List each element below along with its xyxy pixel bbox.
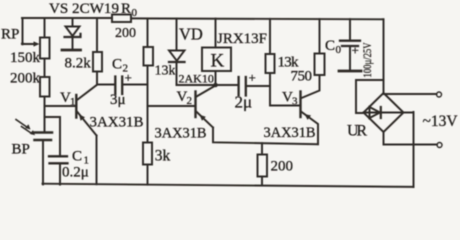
wire branch to bridge left corner bbox=[356, 80, 384, 113]
label 0.2u bbox=[62, 165, 89, 181]
svg-text:150k: 150k bbox=[10, 50, 41, 66]
transistor V2 collector bbox=[197, 86, 216, 97]
label VD bbox=[179, 25, 203, 44]
svg-text:3k: 3k bbox=[155, 148, 171, 165]
label plus C2 bbox=[125, 70, 132, 85]
svg-text:C: C bbox=[112, 57, 122, 73]
svg-text:RP: RP bbox=[1, 27, 19, 43]
label 3AX31B first bbox=[90, 115, 144, 131]
svg-text:200: 200 bbox=[271, 159, 294, 175]
label 2u bbox=[235, 93, 253, 112]
potentiometer RP body bbox=[40, 18, 50, 58]
svg-text:0.2μ: 0.2μ bbox=[62, 165, 89, 181]
label 13k right bbox=[278, 55, 300, 71]
label 3AX31B second bbox=[155, 126, 207, 142]
ground bar of zener branch bbox=[62, 49, 81, 52]
resistor R0 bbox=[112, 15, 131, 23]
wire top rail left segment bbox=[22, 17, 112, 19]
label V3 bbox=[282, 90, 298, 108]
wire bridge right corner to bottom rail bbox=[404, 112, 414, 187]
label JRX13F bbox=[217, 31, 267, 47]
label plus C0 bbox=[352, 43, 359, 58]
node junction dot bbox=[213, 83, 218, 88]
wire VD node to capacitor 2u bbox=[177, 84, 238, 86]
svg-text:3: 3 bbox=[292, 96, 298, 108]
svg-text:3AX31B: 3AX31B bbox=[264, 125, 316, 141]
transistor V3 emitter with arrow bbox=[302, 112, 318, 144]
svg-text:100μ/25V: 100μ/25V bbox=[360, 42, 374, 77]
svg-text:2: 2 bbox=[187, 95, 193, 107]
photocell BP arrows bbox=[16, 120, 35, 136]
bridge rectifier UR diamond bbox=[364, 93, 404, 132]
label K bbox=[211, 51, 225, 72]
label BP bbox=[12, 142, 30, 158]
label 2AK10 bbox=[179, 72, 214, 86]
svg-text:K: K bbox=[211, 51, 225, 72]
label C0 bbox=[325, 38, 342, 56]
svg-text:1: 1 bbox=[70, 96, 76, 108]
svg-text:UR: UR bbox=[347, 123, 367, 140]
resistor 200 bbox=[258, 143, 268, 185]
terminal circle bottom bbox=[437, 143, 442, 148]
transistor V1 collector bbox=[77, 85, 97, 100]
label 100u 25V rotated bbox=[360, 42, 374, 77]
transistor V1 emitter with arrow bbox=[77, 112, 97, 136]
capacitor C0 electrolytic bbox=[340, 19, 360, 69]
label 3k bbox=[155, 148, 171, 165]
svg-text:+: + bbox=[249, 70, 256, 85]
svg-text:3AX31B: 3AX31B bbox=[155, 126, 207, 142]
svg-text:3AX31B: 3AX31B bbox=[90, 115, 144, 131]
label plus 2u bbox=[249, 70, 256, 85]
bridge inner diode bbox=[364, 107, 404, 118]
wire V2 emitter down and right to V3 emitter bbox=[213, 128, 318, 145]
wire 2u to 13k right column bbox=[247, 85, 270, 87]
transistor V3 collector bbox=[302, 75, 320, 98]
label 200k bbox=[10, 71, 41, 87]
label ~13V bbox=[423, 113, 458, 130]
label 200 mid bbox=[271, 159, 294, 175]
capacitor 2u plates bbox=[239, 77, 246, 96]
svg-text:JRX13F: JRX13F bbox=[217, 31, 267, 47]
capacitor C1 plates bbox=[49, 156, 68, 163]
capacitor C2 plates bbox=[115, 77, 122, 95]
transistor V2 emitter with arrow bbox=[197, 112, 213, 128]
svg-text:0: 0 bbox=[132, 7, 138, 19]
wire 200k down to BP bbox=[44, 97, 46, 132]
terminal circle top bbox=[437, 92, 442, 97]
label UR bbox=[347, 123, 367, 140]
label C1 bbox=[72, 149, 89, 167]
label R0 bbox=[121, 1, 138, 19]
label 3u bbox=[110, 92, 126, 108]
wire 13k right to V3 base bbox=[270, 73, 300, 106]
label 3AX31B third bbox=[264, 125, 316, 141]
potentiometer RP wiper arrow bbox=[21, 41, 40, 46]
svg-text:2μ: 2μ bbox=[235, 93, 253, 112]
svg-text:VD: VD bbox=[179, 25, 203, 44]
wire V2 base lead bbox=[148, 105, 195, 107]
wire BP to bottom rail bbox=[42, 141, 44, 185]
label VS 2CW19 bbox=[49, 1, 119, 17]
transistor V1 base bar bbox=[75, 95, 77, 118]
svg-text:0: 0 bbox=[336, 44, 342, 56]
svg-text:+: + bbox=[125, 70, 132, 85]
wire to AC terminal top bbox=[384, 93, 437, 95]
resistor 200k bbox=[40, 77, 50, 97]
wire bottom rail bbox=[43, 184, 414, 187]
svg-text:+: + bbox=[352, 43, 359, 58]
diode VD 2AK10 bbox=[169, 19, 185, 85]
label C2 bbox=[112, 57, 128, 75]
svg-text:BP: BP bbox=[12, 142, 30, 158]
wire V1 base lead bbox=[45, 105, 76, 107]
wire 13k node down through base tee to 3k bbox=[147, 66, 149, 143]
label V2 bbox=[177, 89, 193, 107]
resistor 13k right bbox=[266, 19, 275, 73]
label 13k left bbox=[155, 64, 176, 79]
resistor 750 bbox=[315, 19, 325, 75]
label 8.2k bbox=[65, 56, 92, 72]
label 150k bbox=[10, 50, 41, 66]
svg-text:200k: 200k bbox=[10, 71, 41, 87]
wire left drop to wiper bbox=[23, 18, 35, 44]
wire top rail right segment bbox=[131, 17, 384, 20]
svg-text:200: 200 bbox=[115, 26, 136, 41]
svg-text:3μ: 3μ bbox=[110, 92, 126, 108]
label 750 bbox=[291, 69, 313, 85]
ground bar of C0 branch bbox=[339, 70, 361, 73]
wire C1 tap bbox=[45, 117, 61, 156]
photocell BP plates bbox=[34, 133, 52, 141]
label RP bbox=[1, 27, 19, 43]
wire C2 to 13k node bbox=[123, 84, 147, 86]
wire C1 to bottom rail bbox=[59, 165, 61, 185]
wire 8.2k to C2 node bbox=[97, 72, 114, 85]
label 200 top bbox=[115, 26, 136, 41]
svg-text:2AK10: 2AK10 bbox=[179, 72, 214, 86]
zener diode VS 2CW19 bbox=[65, 18, 81, 48]
wire right rail down bbox=[383, 19, 385, 93]
wire bridge bottom corner to AC terminal bottom bbox=[384, 132, 438, 145]
wire V1 emitter to bottom rail bbox=[96, 136, 98, 185]
svg-text:8.2k: 8.2k bbox=[65, 56, 92, 72]
resistor 3k bbox=[143, 143, 152, 165]
svg-text:C: C bbox=[72, 149, 82, 165]
transistor V3 base bar bbox=[299, 92, 301, 118]
resistor 8.2k bbox=[93, 18, 102, 71]
wire pot to 200k bbox=[44, 59, 46, 78]
svg-text:C: C bbox=[325, 38, 335, 54]
svg-text:R: R bbox=[121, 1, 131, 17]
svg-text:13k: 13k bbox=[155, 64, 176, 79]
transistor V2 base bar bbox=[194, 92, 196, 118]
svg-text:VS 2CW19: VS 2CW19 bbox=[49, 1, 119, 17]
svg-text:~13V: ~13V bbox=[423, 113, 458, 130]
relay coil K JRX13F bbox=[202, 19, 231, 85]
wire 3k to bottom rail bbox=[147, 165, 149, 185]
svg-text:750: 750 bbox=[291, 69, 313, 85]
label V1 bbox=[60, 90, 76, 108]
resistor 13k left bbox=[144, 19, 154, 66]
